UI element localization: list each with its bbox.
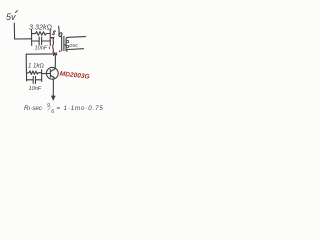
red dot near pin [64, 44, 66, 46]
annotation sb [52, 26, 62, 36]
wire junction left along bottom [26, 53, 53, 55]
svg-text:10nF: 10nF [35, 45, 48, 51]
capacitor C2 [27, 76, 42, 83]
pin OSC1 circle [66, 40, 68, 42]
red tick on wire [51, 37, 53, 39]
red tick left of crystal [48, 47, 50, 49]
crystal Y1 plates [62, 36, 64, 50]
svg-text:1 1kΩ: 1 1kΩ [28, 63, 44, 69]
node right bar of R1/C1 [49, 30, 51, 46]
capacitor C1 [32, 37, 50, 45]
wire junction down [53, 37, 54, 52]
wire base lead [42, 73, 47, 75]
svg-text:5v: 5v [6, 12, 16, 22]
red dot at box corner [66, 50, 68, 52]
wire right node to junction [50, 36, 53, 38]
node left bar of R1/C1 [31, 30, 33, 46]
svg-text:3.32kΩ: 3.32kΩ [29, 23, 52, 32]
junction squiggle [54, 53, 57, 56]
resistor R1 3.32kΩ [32, 32, 50, 36]
node right bar of R2/C2 [41, 70, 43, 82]
wire collector riser [54, 56, 56, 67]
svg-text:10nF: 10nF [29, 86, 42, 92]
power 5V label [6, 11, 18, 23]
IC U1 box (osc section) [66, 37, 86, 51]
wire down to lower network [25, 54, 27, 70]
formula annotation [24, 103, 104, 115]
transistor Q1 [46, 67, 58, 79]
wire emitter down [52, 80, 54, 97]
wire 5V to R1 left node [15, 38, 32, 40]
arrowhead to ground [51, 96, 55, 101]
node left bar of R2/C2 [25, 70, 27, 81]
svg-text:Rı·sec·: Rı·sec· [24, 105, 44, 112]
svg-text:osc: osc [69, 43, 78, 49]
wire 5V rail down [13, 23, 15, 39]
resistor R2 [27, 71, 42, 75]
red dot junction [59, 50, 61, 52]
pin OSC2 circle [66, 45, 68, 47]
svg-text:6: 6 [51, 109, 54, 115]
svg-text:= 1·1mo·0.75: = 1·1mo·0.75 [57, 105, 104, 112]
